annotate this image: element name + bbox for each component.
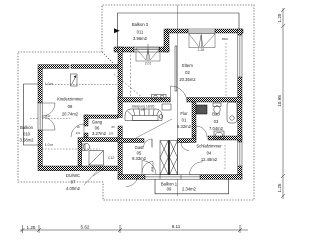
svg-text:4.00m2: 4.00m2	[66, 186, 81, 191]
wc bad	[213, 103, 221, 113]
svg-text:010: 010	[23, 132, 31, 137]
wall main bottom	[118, 175, 242, 180]
washbasin bad	[214, 131, 224, 139]
svg-text:04: 04	[207, 151, 212, 156]
svg-text:01: 01	[182, 118, 187, 123]
window right wall schlafzimmer	[238, 142, 242, 166]
svg-text:1.25: 1.25	[277, 183, 282, 192]
svg-text:Gang: Gang	[92, 120, 103, 125]
room label balkon3	[132, 22, 149, 41]
dashed height line lower	[42, 148, 100, 150]
window symbol eltern	[189, 34, 215, 48]
svg-text:02: 02	[185, 70, 190, 75]
window eltern top	[188, 29, 215, 33]
svg-text:7.04m2: 7.04m2	[209, 126, 224, 131]
balkon 3 railing	[118, 13, 240, 47]
dashed height line kinderzimmer	[46, 84, 118, 86]
svg-text:3.96m2: 3.96m2	[133, 36, 148, 41]
svg-text:2.34m2: 2.34m2	[182, 187, 197, 192]
wall gang bottom	[78, 138, 118, 142]
svg-text:C12: C12	[108, 156, 114, 160]
svg-text:20.74m2: 20.74m2	[62, 112, 79, 117]
svg-text:3.27m2: 3.27m2	[92, 131, 107, 136]
wall left wing left	[38, 68, 42, 167]
room label kinderzimmer	[57, 97, 83, 117]
svg-text:9.32m2: 9.32m2	[177, 124, 192, 129]
svg-text:05: 05	[137, 151, 142, 156]
wall stairhall bottom	[118, 98, 170, 103]
svg-text:18: 18	[76, 125, 80, 129]
svg-text:Schlafzimmer: Schlafzimmer	[196, 144, 222, 149]
dashed roof line eltern right	[225, 43, 227, 97]
room label balkon 1	[161, 182, 197, 192]
svg-text:1.25: 1.25	[277, 13, 282, 22]
door arc gast balcony	[126, 175, 138, 187]
wall gang top	[84, 115, 118, 118]
door arc gast upper	[144, 139, 153, 148]
svg-text:80: 80	[111, 125, 115, 129]
svg-text:9.11: 9.11	[172, 224, 181, 229]
window stairhall top	[134, 47, 159, 52]
svg-text:Eltern: Eltern	[182, 63, 194, 68]
wall left wing top	[38, 65, 119, 69]
svg-text:Kinderzimmer: Kinderzimmer	[57, 97, 83, 102]
glazed X panel block	[160, 141, 178, 175]
window wall main bottom	[145, 175, 200, 180]
svg-text:203: 203	[109, 132, 114, 136]
svg-text:07: 07	[71, 180, 76, 185]
staircase oval	[125, 109, 163, 121]
room label flur	[177, 111, 192, 129]
dimension bottom	[20, 225, 248, 233]
tiny tags	[45, 37, 228, 160]
wc du-wc	[82, 143, 90, 150]
roof outline dashed boundary	[18, 5, 254, 200]
room label gang	[92, 120, 107, 137]
room label eltern	[179, 63, 196, 82]
wall bad bottom	[192, 136, 242, 140]
svg-text:Balkon: Balkon	[20, 125, 33, 130]
svg-text:10.98: 10.98	[277, 95, 282, 107]
svg-text:20.35m2: 20.35m2	[179, 77, 196, 82]
wall flur-bad top	[187, 98, 242, 103]
wall main left	[118, 47, 122, 179]
wall flur-bad divider	[192, 102, 196, 136]
window symbol stairhall	[136, 44, 160, 61]
dimension right	[281, 8, 285, 199]
room label balkon left	[20, 125, 35, 143]
svg-text:Bad: Bad	[212, 112, 220, 117]
svg-text:08: 08	[68, 104, 73, 109]
wall stairhall top	[114, 47, 169, 52]
svg-text:Flur: Flur	[180, 111, 188, 116]
svg-text:212: 212	[150, 166, 154, 171]
door arc french left	[142, 161, 156, 175]
room label bad	[209, 112, 224, 132]
svg-text:06: 06	[95, 126, 100, 131]
svg-text:1.25: 1.25	[27, 225, 36, 230]
svg-text:12.48m2: 12.48m2	[201, 157, 218, 162]
room label gast	[132, 145, 147, 161]
door arc balcony left two leaves	[42, 103, 55, 130]
svg-text:2.01: 2.01	[145, 62, 152, 66]
wall eltern top	[167, 29, 243, 33]
balkon left railing	[24, 84, 42, 145]
balkon 1 railing	[155, 179, 229, 194]
door arc kinderzimmer	[71, 124, 84, 137]
svg-text:03: 03	[214, 119, 219, 124]
dashed height line balcony door	[30, 117, 70, 119]
dashed roof-slope line diagonal	[114, 74, 144, 99]
door arc eltern	[171, 86, 188, 103]
svg-text:5.62: 5.62	[81, 225, 90, 230]
wall du-wc left	[78, 142, 82, 166]
stair walking line	[132, 119, 172, 140]
wall left wing bottom	[38, 166, 117, 171]
door arc bad	[196, 126, 207, 137]
svg-text:09: 09	[167, 187, 172, 192]
svg-text:9.33m2: 9.33m2	[132, 156, 147, 161]
svg-text:Balkon 3: Balkon 3	[132, 22, 149, 27]
svg-text:DU/WC: DU/WC	[66, 173, 80, 178]
window right wall eltern	[238, 35, 242, 77]
svg-text:011: 011	[137, 30, 144, 35]
shower bad	[196, 105, 207, 114]
svg-text:180: 180	[141, 108, 146, 112]
partition eltern	[175, 46, 177, 91]
room label schlafzimmer	[196, 144, 222, 163]
balcony door opening left	[38, 103, 42, 130]
svg-text:Gast: Gast	[135, 145, 145, 150]
stair label	[132, 105, 155, 112]
room label du-wc with leader	[66, 167, 107, 192]
svg-text:1.0 m: 1.0 m	[45, 143, 54, 147]
wall main right	[238, 29, 242, 179]
svg-text:201: 201	[76, 131, 81, 135]
svg-text:BRH: BRH	[222, 37, 228, 41]
svg-text:3.56m2: 3.56m2	[20, 138, 35, 143]
bathtub bad	[227, 102, 237, 123]
washbasin pair flur	[152, 95, 167, 100]
svg-text:1.0 m: 1.0 m	[45, 82, 54, 86]
shower du-wc	[89, 151, 104, 166]
door arc gast lower	[142, 162, 153, 173]
wall jog vertical balkon3	[164, 29, 169, 52]
north arrow box kinderzimmer	[71, 74, 78, 86]
dashed roof-slope line vertical	[130, 51, 132, 99]
wall kinderzimmer-gang divider	[84, 115, 88, 138]
fixtures wc niche	[162, 104, 171, 110]
door arc french right	[190, 162, 203, 175]
wall gast top	[118, 139, 196, 143]
north arrow on balkon3 wall	[114, 28, 120, 33]
section line	[177, 5, 179, 196]
door arc flur-schlafzimmer	[181, 143, 189, 151]
svg-text:1.26: 1.26	[198, 48, 205, 52]
